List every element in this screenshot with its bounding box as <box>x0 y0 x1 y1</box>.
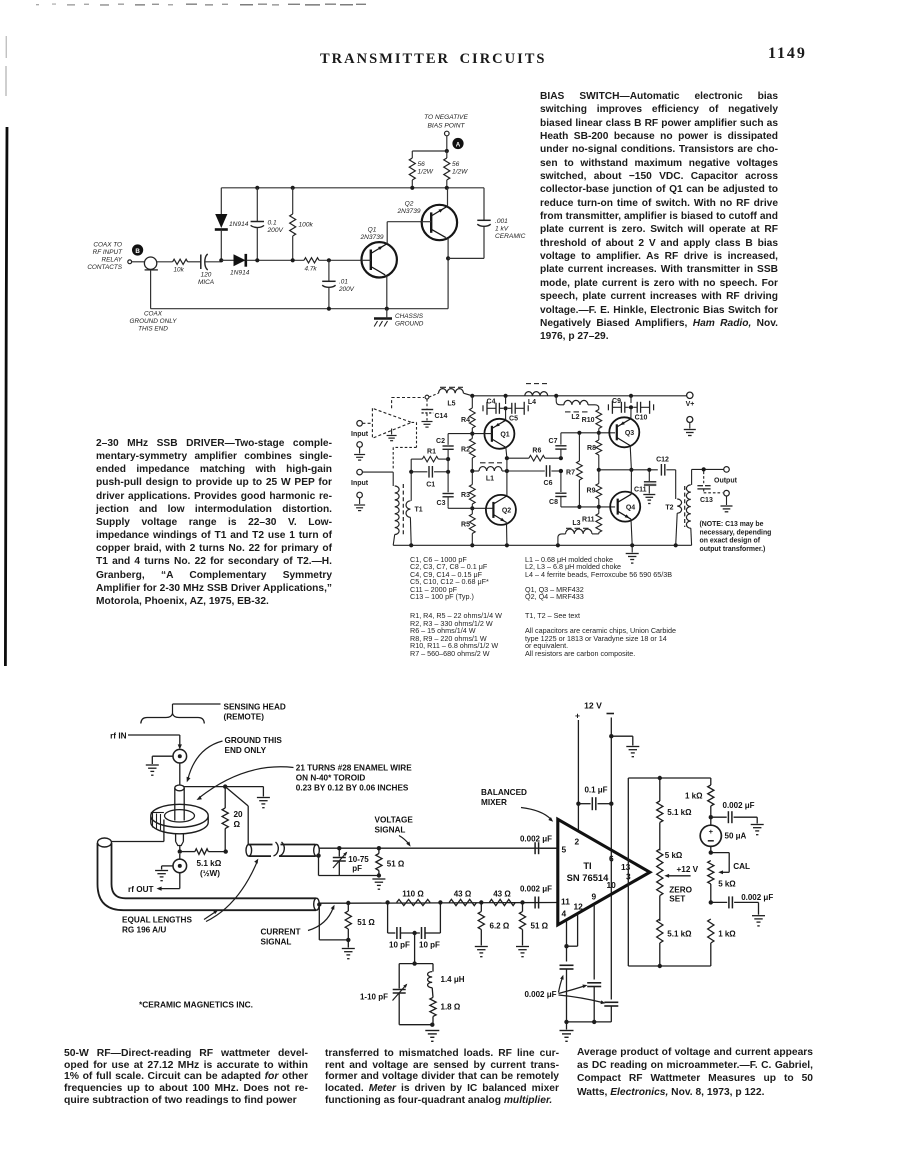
ground below rail at Q4 <box>631 545 633 552</box>
svg-text:R9: R9 <box>587 488 596 495</box>
toroid core <box>151 804 208 827</box>
output terminal <box>724 467 730 473</box>
pin 9 line to bypass cap2 <box>593 904 595 980</box>
svg-text:C6: C6 <box>544 480 553 487</box>
Q4 base wire <box>561 506 615 508</box>
svg-text:R1: R1 <box>427 449 436 456</box>
resistor R11 <box>598 507 600 514</box>
svg-text:C9: C9 <box>612 398 621 405</box>
svg-text:C8: C8 <box>549 499 558 506</box>
svg-text:GROUND: GROUND <box>395 321 424 328</box>
svg-text:5.1 kΩ: 5.1 kΩ <box>667 930 692 939</box>
lower output terminal with ground <box>724 490 730 496</box>
svg-text:L5: L5 <box>447 401 455 408</box>
voltage coax tube <box>246 845 252 857</box>
resistor 5.1 kohm top <box>659 778 661 801</box>
svg-text:B: B <box>135 248 140 255</box>
resistor 4.7k <box>304 258 319 263</box>
current signal line <box>319 902 348 904</box>
svg-text:0.1 μF: 0.1 μF <box>584 786 607 795</box>
resistor 51 ohm at mixer <box>522 903 524 912</box>
svg-text:END ONLY: END ONLY <box>225 746 267 755</box>
wire L2 to R10 <box>588 405 599 410</box>
bypass capacitor 1 0.002uF <box>560 964 574 966</box>
svg-text:1N914: 1N914 <box>229 221 249 228</box>
ground inside triangle <box>391 429 393 435</box>
svg-text:.001: .001 <box>495 218 508 225</box>
svg-text:5: 5 <box>562 844 567 854</box>
trimmer capacitor 10-75 pF <box>338 848 340 856</box>
pin 4 wire to cap1 <box>566 921 568 962</box>
svg-text:9: 9 <box>592 892 597 902</box>
svg-text:(NOTE: C13 may be: (NOTE: C13 may be <box>700 521 764 528</box>
svg-text:13: 13 <box>621 862 631 872</box>
meter bridge bottom rail <box>628 965 711 967</box>
left rf coax tube <box>98 838 112 847</box>
resistor 10k <box>173 259 188 264</box>
wire Q3 collector down to output node <box>630 446 631 470</box>
svg-text:R8: R8 <box>587 445 596 452</box>
Q3 base wire <box>561 432 615 434</box>
svg-text:L3: L3 <box>572 520 580 527</box>
inner conductor from rf coax <box>112 841 164 843</box>
12V plus into mixer pin 2 <box>577 804 579 831</box>
wire terminal A down to rail <box>446 136 448 151</box>
svg-text:R3: R3 <box>461 492 470 499</box>
capacitor 120 MICA <box>200 255 202 270</box>
svg-text:RELAY: RELAY <box>102 257 123 264</box>
transformer T1 core dashed <box>402 484 404 536</box>
transistor Q4 MRF433 <box>610 492 640 522</box>
svg-text:CONTACTS: CONTACTS <box>87 264 122 271</box>
bypass capacitor 2 0.002uF <box>587 982 601 984</box>
potentiometer 5 kohm ZERO SET <box>657 849 663 896</box>
svg-text:L2: L2 <box>571 414 579 421</box>
wire C3 to Q2 base node <box>447 507 449 509</box>
resistor 51 ohm current <box>347 903 349 911</box>
svg-text:SENSING HEAD: SENSING HEAD <box>224 703 286 712</box>
svg-text:56: 56 <box>418 161 426 168</box>
CAL loop with arrow <box>711 852 729 854</box>
wire Q2 emitter up to rail <box>447 188 449 206</box>
svg-text:0.002 μF: 0.002 μF <box>524 990 556 999</box>
wire top node horizontal <box>412 150 447 152</box>
capacitor C3 <box>443 493 454 495</box>
svg-text:.01: .01 <box>339 279 348 286</box>
svg-text:Input: Input <box>351 480 369 487</box>
bypass capacitor 3 0.002uF <box>604 1001 618 1003</box>
capacitor 0.1 200V <box>256 188 258 222</box>
10 pF coupling branch <box>387 903 389 934</box>
rf OUT connector <box>179 854 181 859</box>
12V minus line down through mixer <box>610 736 612 999</box>
inductor L1 with dashes <box>472 470 479 472</box>
node circle at C14 <box>425 395 429 399</box>
svg-text:56: 56 <box>452 161 460 168</box>
svg-text:R4: R4 <box>461 417 470 424</box>
left page-edge scan line <box>5 36 7 58</box>
svg-text:CHASSIS: CHASSIS <box>395 313 424 320</box>
wire junction to diode2 <box>221 259 233 261</box>
capacitor 0.002 uF current input <box>534 897 536 909</box>
svg-text:2N3739: 2N3739 <box>359 234 383 241</box>
resistor R3 <box>471 471 473 485</box>
svg-text:C11: C11 <box>634 487 647 494</box>
rf OUT wire and label <box>179 873 181 889</box>
resistor R10 <box>596 410 602 429</box>
potentiometer 5 kohm CAL <box>708 861 714 884</box>
svg-text:(½W): (½W) <box>200 869 220 878</box>
svg-text:6.2 Ω: 6.2 Ω <box>490 922 510 931</box>
torn perforation dashes at top of page <box>36 4 39 5</box>
V- terminal with ground <box>687 417 693 423</box>
svg-text:ZERO: ZERO <box>669 886 692 895</box>
svg-text:1/2W: 1/2W <box>452 169 468 176</box>
svg-text:C2: C2 <box>436 438 445 445</box>
svg-text:R7: R7 <box>566 470 575 477</box>
svg-text:BALANCED: BALANCED <box>481 788 527 797</box>
svg-text:1.4 μH: 1.4 μH <box>441 975 465 984</box>
resistor 20 ohm <box>224 787 226 808</box>
svg-text:Ω: Ω <box>234 820 241 829</box>
wire Q1-Q2 node vertical <box>506 458 508 471</box>
meter bridge top rail <box>628 777 711 779</box>
svg-text:5.1 kΩ: 5.1 kΩ <box>197 859 222 868</box>
wire 4.7k to Q1 base <box>319 259 362 261</box>
ground of 12V minus <box>609 734 613 738</box>
svg-text:(REMOTE): (REMOTE) <box>224 713 265 722</box>
svg-text:0.1: 0.1 <box>268 220 277 227</box>
svg-text:R11: R11 <box>582 517 595 524</box>
svg-text:C12: C12 <box>656 457 669 464</box>
inductor L4 with bead dashes <box>525 392 548 396</box>
svg-text:C1: C1 <box>426 482 435 489</box>
svg-text:C10: C10 <box>635 415 648 422</box>
microammeter 50 uA <box>710 817 712 825</box>
svg-text:+12 V: +12 V <box>677 865 699 874</box>
wire C4C5 node to Q1 emitter <box>505 408 507 419</box>
diode 1N914 horizontal <box>234 254 246 266</box>
transistor Q3 MRF432 <box>609 417 639 447</box>
svg-text:0.002 μF: 0.002 μF <box>520 885 552 894</box>
V+ terminal <box>687 392 693 398</box>
transformer T2 secondary <box>691 469 693 485</box>
svg-text:4: 4 <box>562 908 567 918</box>
wire R1 left down to C1 node <box>410 459 412 472</box>
resistor 56 ohm 1/2W left <box>411 151 413 158</box>
toroid tube <box>175 785 184 791</box>
svg-text:TI: TI <box>583 860 591 871</box>
svg-text:CAL: CAL <box>733 862 750 871</box>
resistor 51 ohm voltage <box>378 848 380 853</box>
capacitor cluster C4 C5 <box>498 403 500 414</box>
resistor 43 ohm first <box>449 899 476 905</box>
dashed feedback wire from triangle <box>412 421 417 423</box>
upper rail wire <box>221 187 484 189</box>
transistor Q2 MRF433 <box>486 495 516 525</box>
wire C2-C1 node down to C3 <box>447 459 449 492</box>
svg-text:rf IN: rf IN <box>110 731 126 740</box>
svg-text:C14: C14 <box>435 413 448 420</box>
bottom ground rail of driver <box>393 544 691 546</box>
chassis ground symbol <box>374 317 392 320</box>
svg-text:T1: T1 <box>415 507 423 514</box>
svg-text:10 pF: 10 pF <box>389 941 410 950</box>
svg-text:0.002 μF: 0.002 μF <box>723 801 755 810</box>
resonator bottom and ground <box>399 1024 433 1026</box>
svg-text:51 Ω: 51 Ω <box>357 918 375 927</box>
capacitor C14 with dashed leads <box>426 399 428 409</box>
svg-text:51 Ω: 51 Ω <box>531 922 549 931</box>
svg-text:output transformer.): output transformer.) <box>700 546 766 553</box>
inductor L3 with dashes <box>592 533 599 535</box>
trimmer 1-10 pF <box>398 964 400 989</box>
diode 1N914 vertical <box>220 188 222 214</box>
svg-text:4.7k: 4.7k <box>305 265 318 272</box>
capacitor 0.002 uF lower right <box>711 901 727 903</box>
toroid winding hatch marks <box>152 813 154 828</box>
resistor R5 <box>471 508 473 514</box>
wire C12 down to T2 primary <box>675 470 677 499</box>
svg-text:12 V: 12 V <box>584 701 602 711</box>
capacitor C2 <box>447 434 449 445</box>
resistor 43 ohm second <box>489 899 515 905</box>
svg-text:L4: L4 <box>528 399 536 406</box>
capacitor C12 <box>660 464 662 476</box>
svg-text:0.23 BY 0.12 BY 0.06 INCHES: 0.23 BY 0.12 BY 0.06 INCHES <box>296 784 409 793</box>
bottom rail wire <box>151 308 449 310</box>
wire Q4 emitter down to rail <box>631 519 632 545</box>
svg-text:MICA: MICA <box>198 279 214 286</box>
svg-text:200V: 200V <box>338 286 355 293</box>
svg-text:V+: V+ <box>686 401 695 408</box>
output node wire <box>599 469 658 471</box>
input terminal 1 <box>357 421 363 427</box>
wire Q2 collector up to L1 node <box>506 471 508 496</box>
wire input2 to T1 <box>362 471 393 473</box>
capacitor C6 <box>507 470 545 472</box>
svg-text:Q3: Q3 <box>625 430 634 437</box>
svg-text:R2: R2 <box>461 447 470 454</box>
svg-text:SN 76514: SN 76514 <box>567 872 609 883</box>
svg-text:CERAMIC: CERAMIC <box>495 233 526 240</box>
pin 12 wire <box>577 915 579 947</box>
wire diode to caps junctions <box>247 259 305 261</box>
capacitor C13 dashed optional <box>703 472 705 484</box>
svg-text:SIGNAL: SIGNAL <box>375 826 406 835</box>
svg-text:0.002 μF: 0.002 μF <box>520 835 552 844</box>
svg-text:6: 6 <box>609 854 614 864</box>
svg-text:COAX TO: COAX TO <box>93 242 122 249</box>
wire trimmer to 51 bottoms and voltage shield <box>316 853 320 857</box>
svg-text:on exact design of: on exact design of <box>700 538 761 545</box>
capacitor .001 1kV CERAMIC <box>477 219 490 221</box>
svg-text:MIXER: MIXER <box>481 798 507 807</box>
svg-text:RF INPUT: RF INPUT <box>93 249 123 256</box>
resistor R4 <box>471 396 473 408</box>
wire C6 node down to C8 <box>560 471 562 492</box>
svg-text:C3: C3 <box>437 500 446 507</box>
svg-text:50 μA: 50 μA <box>725 832 747 841</box>
svg-text:10 pF: 10 pF <box>419 941 440 950</box>
svg-text:43 Ω: 43 Ω <box>454 889 472 898</box>
svg-text:5 kΩ: 5 kΩ <box>665 851 683 860</box>
svg-text:T2: T2 <box>665 505 673 512</box>
svg-text:1 kΩ: 1 kΩ <box>718 930 736 939</box>
svg-text:1/2W: 1/2W <box>418 169 434 176</box>
resistor 5.1 kohm bottom <box>657 919 663 943</box>
resistor R8 <box>598 433 600 440</box>
resistor 1 kohm top <box>710 778 712 785</box>
capacitor C7 <box>560 433 562 445</box>
wire Q3 emitter up to C9C10 node <box>630 407 632 418</box>
svg-text:1-10 pF: 1-10 pF <box>360 993 388 1002</box>
svg-text:pF: pF <box>352 864 362 873</box>
coax shield connector circle <box>144 257 156 269</box>
wire Q2 collector down <box>447 239 449 309</box>
resistor R6 <box>507 457 529 459</box>
capacitor C1 <box>411 471 427 473</box>
svg-text:11: 11 <box>561 896 570 906</box>
svg-text:L1: L1 <box>486 476 494 483</box>
svg-text:CURRENT: CURRENT <box>261 928 301 937</box>
svg-text:110 Ω: 110 Ω <box>402 889 424 898</box>
svg-text:Q2: Q2 <box>502 508 511 515</box>
svg-text:COAX: COAX <box>144 311 163 318</box>
svg-text:Q1: Q1 <box>500 432 509 439</box>
svg-text:A: A <box>456 141 461 148</box>
capacitor cluster C9 C10 <box>624 402 626 413</box>
svg-text:rf OUT: rf OUT <box>128 885 153 894</box>
dashed wire input1 to amp triangle <box>362 422 372 424</box>
node A badge <box>452 138 463 149</box>
mixer output line pins 13 3 <box>627 778 629 966</box>
svg-text:Q4: Q4 <box>626 505 635 512</box>
svg-text:RG 196 A/U: RG 196 A/U <box>122 926 166 935</box>
svg-text:12: 12 <box>574 901 584 911</box>
dashed driver amplifier triangle <box>372 408 411 438</box>
top node wire of sensing head <box>184 786 263 788</box>
resistor R2 <box>471 434 473 439</box>
svg-text:0.002 μF: 0.002 μF <box>741 893 773 902</box>
svg-text:C7: C7 <box>549 438 558 445</box>
ground below input 2 <box>357 492 363 498</box>
svg-text:1 kΩ: 1 kΩ <box>685 792 703 801</box>
svg-text:THIS END: THIS END <box>138 326 168 333</box>
svg-text:1N914: 1N914 <box>230 270 250 277</box>
resistor R7 <box>578 433 580 461</box>
capacitor .01 200V <box>328 260 330 281</box>
mixer ground rail <box>567 1021 612 1023</box>
svg-text:1 kV: 1 kV <box>495 226 509 233</box>
wire to 10k <box>157 261 173 263</box>
dashed wire triangle to L5 node <box>391 398 393 409</box>
resistor R9 <box>598 470 600 484</box>
current coax end <box>314 898 320 910</box>
svg-text:10k: 10k <box>174 267 185 274</box>
capacitor C11 <box>648 470 650 481</box>
wire Q1 collector to bottom rail <box>386 276 388 309</box>
svg-text:GROUND ONLY: GROUND ONLY <box>130 318 178 325</box>
svg-text:1.8 Ω: 1.8 Ω <box>441 1003 461 1012</box>
ground top right of head <box>262 787 264 797</box>
resistor 1 kohm bottom <box>708 919 714 943</box>
resistor 56 ohm 1/2W right <box>446 151 448 158</box>
svg-text:SET: SET <box>669 895 685 904</box>
transformer T2 core dashed <box>684 486 686 527</box>
svg-text:Q2: Q2 <box>405 201 414 208</box>
rf IN connector <box>173 749 187 763</box>
svg-text:C13: C13 <box>700 497 713 504</box>
coax shield return to ground <box>318 905 320 940</box>
svg-text:100k: 100k <box>299 222 314 229</box>
transformer T1 primary <box>392 472 394 486</box>
output wire <box>692 468 724 470</box>
svg-text:Output: Output <box>714 478 738 485</box>
winding wire diagonal to coax <box>225 787 248 806</box>
svg-text:43 Ω: 43 Ω <box>493 889 511 898</box>
svg-text:BIAS POINT: BIAS POINT <box>427 123 465 130</box>
wire Q1 emitter up to Q2 base <box>386 222 388 244</box>
svg-text:+: + <box>575 711 580 721</box>
capacitor 0.002 uF meter top <box>711 816 727 818</box>
voltage signal line <box>319 847 556 849</box>
svg-text:necessary, depending: necessary, depending <box>700 529 772 536</box>
resonator branch wire <box>414 933 416 964</box>
tube lower plug <box>175 834 177 842</box>
V+ rail wire <box>472 395 686 397</box>
transformer T2 primary <box>677 499 681 513</box>
svg-text:R5: R5 <box>461 522 470 529</box>
wire Q2 emitter down to rail <box>506 523 508 546</box>
svg-text:200V: 200V <box>267 227 284 234</box>
wire 10k to 120 MICA <box>188 261 201 263</box>
inductor 1.4 uH <box>432 964 434 972</box>
svg-text:5.1 kΩ: 5.1 kΩ <box>667 808 692 817</box>
svg-text:Q1: Q1 <box>368 227 377 234</box>
svg-text:SIGNAL: SIGNAL <box>261 938 292 947</box>
svg-text:C4: C4 <box>487 399 496 406</box>
svg-text:ON N-40* TOROID: ON N-40* TOROID <box>296 774 366 783</box>
inductor L5 ferrite beads dashed <box>429 393 439 397</box>
resistor 110 ohm <box>397 899 431 905</box>
mixer IC TI SN76514 triangle <box>558 819 650 925</box>
wire Q4 collector up to output node <box>630 470 632 494</box>
wire input to coax shield circle <box>132 261 144 263</box>
wire Q1 collector down to R6 node <box>506 447 507 458</box>
svg-text:21 TURNS #28 ENAMEL WIRE: 21 TURNS #28 ENAMEL WIRE <box>296 764 412 773</box>
wire cap .001 branch <box>483 188 485 221</box>
resistor R1 <box>411 458 422 460</box>
transformer T1 secondary <box>410 472 412 501</box>
svg-text:C5: C5 <box>509 416 518 423</box>
svg-text:R6: R6 <box>532 448 541 455</box>
svg-text:120: 120 <box>201 272 212 279</box>
svg-text:51 Ω: 51 Ω <box>387 860 405 869</box>
sensing head brace and label <box>141 714 205 724</box>
transistor Q1 MRF432 <box>484 419 514 449</box>
capacitor 0.002 uF voltage input <box>534 842 536 854</box>
resistor 6.2 ohm <box>480 903 482 912</box>
svg-text:R10: R10 <box>582 417 595 424</box>
svg-text:2N3739: 2N3739 <box>396 208 420 215</box>
resistor 100k <box>292 188 294 214</box>
+12V wiper arrow <box>668 875 691 877</box>
wire connector to tube <box>179 763 181 785</box>
capacitor C8 <box>555 492 566 494</box>
svg-text:10-75: 10-75 <box>348 855 369 864</box>
ground below input 1 <box>357 442 363 448</box>
